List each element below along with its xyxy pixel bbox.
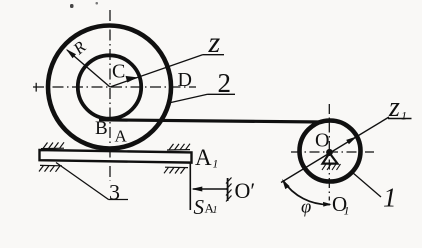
- wheel 1 circle: [300, 121, 361, 182]
- svg-text:2: 2: [218, 68, 232, 98]
- label r (z-styled) underlined: [203, 26, 225, 59]
- rack guide hatch lower-left: [39, 165, 62, 171]
- belt/link line 2 from B to wheel 1: [99, 120, 322, 122]
- wheel 2 horizontal centerline: [33, 86, 196, 88]
- rack guide hatch upper-right: [167, 144, 190, 150]
- svg-text:O: O: [315, 130, 329, 152]
- svg-text:1: 1: [401, 109, 407, 123]
- wheel 1 horizontal centerline: [291, 151, 374, 153]
- radius R arrow: [66, 49, 110, 87]
- angle phi arc: [283, 181, 330, 205]
- centerline end tick: [35, 83, 37, 92]
- svg-text:1: 1: [213, 159, 219, 171]
- wheel 2 inner hub circle: [78, 55, 141, 118]
- phi arc arrowhead upper-left: [282, 179, 290, 189]
- svg-text:S: S: [194, 195, 205, 219]
- scan speck top: [96, 2, 99, 5]
- fixed pivot triangle: [323, 153, 338, 164]
- rack bar 3: [40, 150, 192, 163]
- label r1 (z1) underlined: [388, 92, 412, 123]
- pivot hatch: [322, 164, 341, 170]
- svg-text:A: A: [115, 127, 128, 146]
- wheel 2 outer circle: [48, 26, 171, 149]
- label 2 with underline and leader: [167, 68, 236, 104]
- svg-text:1: 1: [383, 183, 397, 213]
- wheel 1 vertical centerline: [328, 104, 330, 201]
- rack guide hatch lower-right: [164, 167, 188, 173]
- label S_A1: [194, 195, 218, 219]
- svg-text:φ: φ: [301, 198, 311, 218]
- phi arc arrowhead at O1: [323, 202, 332, 207]
- label 1 with leader: [353, 173, 397, 213]
- label A1: [195, 145, 218, 171]
- scan speck top-left: [70, 4, 74, 8]
- rack guide hatch upper-left: [41, 142, 64, 148]
- S_A1 arrow: [191, 187, 227, 192]
- arrow anchor wall with hatch: [226, 178, 232, 202]
- svg-text:A: A: [195, 145, 212, 170]
- radius r1 diagonal line: [281, 117, 389, 183]
- radius r1 arrowhead: [346, 136, 357, 144]
- displacement reference vertical line: [189, 163, 191, 210]
- svg-text:3: 3: [109, 180, 120, 205]
- label O1: [332, 192, 350, 218]
- svg-text:B: B: [95, 118, 108, 139]
- svg-text:C: C: [112, 61, 125, 83]
- svg-text:1: 1: [213, 205, 218, 216]
- svg-text:D: D: [178, 69, 192, 91]
- pivot point of wheel 1: [326, 149, 333, 156]
- svg-text:O′: O′: [235, 178, 256, 203]
- label 3 with leader and underline: [56, 163, 128, 205]
- svg-text:1: 1: [344, 204, 350, 218]
- wheel 2 vertical centerline: [109, 10, 111, 181]
- radius r arrow and leader: [110, 55, 203, 87]
